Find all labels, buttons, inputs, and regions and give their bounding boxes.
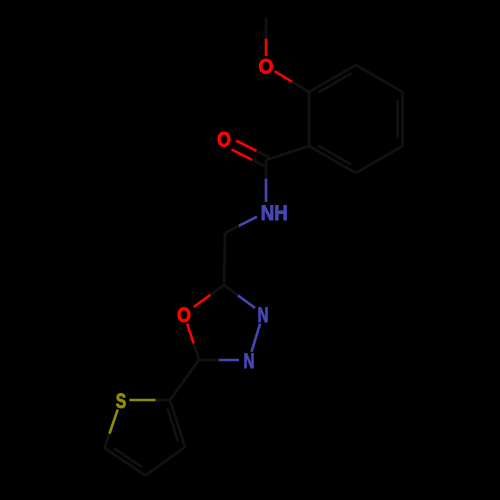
bond C4ar-C5ar (benzene) — [401, 92, 404, 146]
bond S1'-C2' (thiophene) (Ct2 half) — [155, 399, 170, 402]
double bond C=O (carbonyl) — [232, 150, 253, 160]
bond C1ar-C2ar (benzene) — [308, 92, 311, 146]
bond S1'-C2' (thiophene) (S1 half) — [130, 399, 158, 402]
svg-text:O: O — [259, 56, 274, 79]
bond C5-O1 (oxadiazole) (O1x half) — [187, 324, 194, 344]
bond inner line C2'=C3' — [168, 409, 179, 442]
bond CH3-O (methoxy methyl) (Oome half) — [265, 39, 268, 56]
bond C2ar-C3ar (benzene) — [309, 65, 356, 92]
bond C2=N3 (oxadiazole) (C2x half) — [224, 285, 240, 297]
svg-text:N: N — [244, 350, 255, 373]
bond O1-C2 (oxadiazole) (O1x half) — [194, 294, 212, 307]
bond C1ar-C(=O) — [266, 146, 309, 160]
bond CH3-O (methoxy methyl) (CH3o half) — [265, 18, 268, 41]
bond N3-N4 (oxadiazole) — [252, 324, 261, 352]
bond O1-C2 (oxadiazole) (C2x half) — [210, 285, 224, 295]
svg-text:S: S — [116, 390, 127, 413]
bond O-C2ar (methoxy to ring) (B2 half) — [292, 82, 309, 92]
double bond C=O (carbonyl) — [250, 159, 264, 166]
double bond C=O (carbonyl) — [255, 150, 269, 157]
bond C2'-C3' (thiophene) — [170, 400, 185, 447]
bond C6ar-C1ar (benzene) — [309, 146, 356, 173]
bond N-CH2 (Nam half) — [237, 217, 257, 227]
svg-text:O: O — [217, 129, 231, 152]
bond C5ar-C6ar (benzene) — [356, 146, 403, 173]
bond inner line C2ar=C3ar — [319, 73, 352, 92]
svg-text:N: N — [258, 304, 269, 327]
bond C2=N3 (oxadiazole) (N3x half) — [238, 295, 255, 308]
bond C5'-S1' (thiophene) (Ct5 half) — [105, 432, 111, 448]
svg-text:O: O — [177, 304, 191, 327]
bond N4=C5 (oxadiazole) (C5x half) — [199, 359, 219, 362]
bond N4=C5 (oxadiazole) (N4x half) — [217, 359, 239, 362]
bond C(=O)-N (amide) (Cco half) — [265, 160, 268, 181]
bond C5-O1 (oxadiazole) (C5x half) — [193, 342, 199, 360]
bond C5'-S1' (thiophene) (S1 half) — [110, 410, 118, 434]
bond CH2-C2 (oxadiazole) — [224, 233, 225, 285]
bond inner line C6ar=C1ar — [319, 146, 352, 165]
double bond C=O (carbonyl) — [236, 141, 256, 151]
bond C(=O)-N (amide) (Nam half) — [265, 179, 268, 202]
bond inner line C4'=C5' — [114, 448, 143, 467]
bond N-CH2 (CH2 half) — [225, 226, 239, 233]
bond inner line C4ar=C5ar — [396, 100, 399, 138]
bond C3ar-C4ar (benzene) — [356, 65, 403, 92]
bond C5-C2' (oxadiazole to thiophene) — [170, 360, 199, 400]
bond C4'-C5' (thiophene) — [105, 448, 146, 476]
bond O-C2ar (methoxy to ring) (Oome half) — [275, 71, 294, 82]
svg-text:NH: NH — [261, 202, 288, 225]
bond C3'-C4' (thiophene) — [146, 447, 186, 476]
